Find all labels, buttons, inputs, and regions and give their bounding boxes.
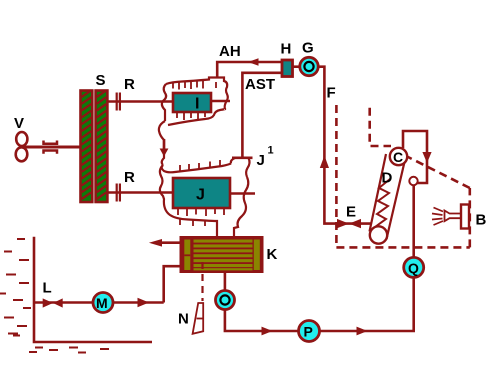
label J1 <box>257 145 274 170</box>
arrow left at K discharge <box>149 239 162 247</box>
coupling R top <box>116 93 121 111</box>
pump G inner O <box>304 62 313 71</box>
hatch ticks below bottom jacket line <box>180 220 205 227</box>
arrow right on P wire <box>262 327 273 336</box>
dashed enclosure right edge <box>468 188 471 247</box>
J1 flange bar <box>232 157 253 160</box>
wire R top <box>108 100 173 103</box>
arrow left on AH wire <box>248 58 259 66</box>
pulley C circle <box>390 148 407 165</box>
svg-text:Q: Q <box>408 260 419 276</box>
wire AH <box>217 62 282 78</box>
wire sea suction <box>34 301 164 304</box>
pump M circle <box>93 293 113 313</box>
belt left line <box>370 154 387 232</box>
pump O circle <box>216 291 235 310</box>
radiator S left bar <box>81 90 93 202</box>
wire stub right of I <box>211 100 230 103</box>
engine jacket around J top line <box>162 164 231 173</box>
coupling R bottom <box>116 184 121 202</box>
dashed drain to N <box>201 262 203 301</box>
engine jacket bottom outline <box>160 165 217 236</box>
dashed inner vertical <box>370 108 391 146</box>
wire O to P <box>225 310 299 331</box>
svg-text:H: H <box>281 41 292 58</box>
wire G to F line <box>318 67 372 224</box>
svg-text:R: R <box>124 76 135 93</box>
svg-text:K: K <box>267 246 278 263</box>
wire device to Q and P corner <box>412 186 415 257</box>
horn B cone and neck <box>445 211 462 222</box>
fan shaft wire <box>24 146 80 149</box>
svg-text:R: R <box>124 169 135 186</box>
pump O inner ring <box>220 295 229 304</box>
horn B rays <box>432 208 443 226</box>
svg-text:D: D <box>382 170 393 187</box>
flange right curve down to right wall <box>246 158 249 177</box>
wire K upper-left with arrow <box>160 241 181 244</box>
svg-text:S: S <box>96 72 106 89</box>
arrow right on P-Q wire <box>357 327 368 336</box>
funnel N <box>193 303 204 334</box>
valve E bowtie <box>337 219 361 228</box>
arrow right on M wire <box>138 298 150 308</box>
jacket bottom right wall to K <box>234 177 248 236</box>
svg-text:C: C <box>393 149 403 165</box>
wire R bottom <box>108 191 173 194</box>
radiator S right bar <box>96 90 108 202</box>
pulley small idler <box>409 177 417 185</box>
sea level dashes <box>0 239 109 353</box>
hatch ticks under I box <box>177 112 205 120</box>
compressor rect <box>403 131 427 186</box>
heater H box <box>282 60 293 77</box>
horn B body rect <box>461 205 469 229</box>
arrow down on left wall <box>160 139 169 157</box>
wire AST vertical <box>242 73 282 157</box>
belt zigzag <box>375 179 390 227</box>
hatch ticks above J jacket line <box>180 160 220 172</box>
fan V blades <box>16 132 28 161</box>
wire H to G <box>292 65 299 68</box>
arrow down in compressor rect <box>422 152 431 163</box>
svg-text:V: V <box>14 115 24 132</box>
svg-text:AH: AH <box>219 43 241 60</box>
svg-text:AST: AST <box>245 76 275 93</box>
jacket hatch ticks under top line <box>173 80 216 90</box>
svg-text:N: N <box>178 311 189 328</box>
svg-text:F: F <box>327 85 336 102</box>
dashed enclosure bottom edge <box>336 246 469 249</box>
pump Q circle <box>404 257 424 277</box>
engine jacket upper outline around I <box>162 78 228 126</box>
svg-text:1: 1 <box>268 145 274 157</box>
tank wall <box>34 237 152 342</box>
svg-text:M: M <box>96 295 108 311</box>
cooler K body <box>181 238 262 272</box>
svg-text:G: G <box>302 40 314 57</box>
shaft coupling <box>44 141 58 154</box>
cylinder J box <box>173 178 230 208</box>
dashed diagonal to C <box>407 157 470 189</box>
dashed enclosure left edge <box>335 105 338 247</box>
wire K to O <box>224 272 227 291</box>
svg-text:J: J <box>196 187 205 204</box>
svg-text:P: P <box>304 324 313 340</box>
pulley bottom circle <box>370 226 387 243</box>
cylinder I box <box>173 93 211 112</box>
pump G circle <box>300 57 318 75</box>
hatch ticks under J box <box>178 208 224 216</box>
svg-text:E: E <box>346 204 356 221</box>
arrow up on F wire <box>320 156 329 169</box>
svg-text:B: B <box>476 212 487 229</box>
wire stub right of J <box>230 192 255 195</box>
valve L bowtie <box>43 298 63 307</box>
svg-text:L: L <box>43 280 52 297</box>
wire K lower-left to M riser <box>164 266 181 302</box>
svg-text:I: I <box>195 96 199 113</box>
belt right line <box>387 162 405 239</box>
pump P circle <box>299 321 320 342</box>
svg-text:J: J <box>257 152 265 169</box>
flange left curve <box>231 158 235 164</box>
engine jacket left wall middle <box>159 121 165 165</box>
